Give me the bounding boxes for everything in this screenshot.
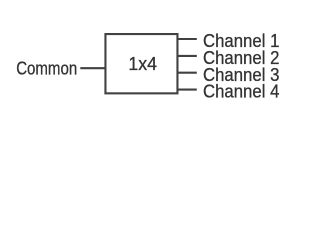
wire channel 3 stub [178, 72, 197, 74]
switch box U1 [105, 34, 177, 93]
svg-text:1x4: 1x4 [128, 54, 157, 74]
wire channel 1 stub [178, 38, 197, 40]
svg-text:Common: Common [16, 59, 77, 79]
wire channel 4 stub [178, 89, 197, 91]
wire common input [80, 67, 105, 69]
svg-text:Channel 4: Channel 4 [203, 82, 279, 102]
1x4 switch diagram [0, 0, 300, 123]
wire channel 2 stub [178, 55, 197, 57]
